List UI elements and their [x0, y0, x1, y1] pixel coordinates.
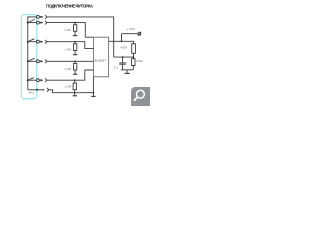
node row4-R3 junction	[74, 60, 76, 62]
connector pin X6	[28, 88, 49, 92]
connector pin X4	[28, 59, 47, 63]
svg-text:ПОДКЛЮЧЕНИЕ ФУТОРКА: ПОДКЛЮЧЕНИЕ ФУТОРКА	[46, 3, 94, 8]
capacitor C1	[119, 63, 126, 64]
wire +3.3V drop	[121, 34, 123, 42]
wire rail B	[114, 56, 134, 58]
wire row5 to IC pin 4	[47, 70, 94, 80]
svg-text:1.5М: 1.5М	[64, 47, 71, 51]
connector pin X3	[28, 40, 47, 44]
connector box XS1 (pale cyan)	[21, 15, 36, 99]
wire row3 to IC pin 2	[47, 42, 94, 49]
resistor R2 1.5M	[74, 42, 77, 55]
node row5-R4 junction	[74, 79, 76, 81]
svg-text:470К: 470К	[120, 46, 127, 50]
+3.3V terminal	[138, 32, 141, 36]
node cap top junction	[122, 56, 124, 58]
svg-text:1.5М: 1.5М	[64, 67, 71, 71]
node row2-R1 junction	[74, 22, 76, 24]
wire capacitor leads	[122, 57, 124, 70]
svg-text:1.5М: 1.5М	[64, 28, 71, 32]
ground at rail end	[91, 93, 95, 97]
ground under R3	[73, 73, 77, 75]
svg-text:0,1: 0,1	[114, 66, 119, 70]
wire +3.3V feed	[122, 33, 138, 35]
ground under R1	[73, 35, 77, 37]
connector pin X2	[28, 21, 47, 25]
connector pin X1	[28, 15, 47, 19]
resistor R3 1.5M	[74, 61, 77, 74]
bus wire	[28, 17, 29, 90]
node +3.3V junction	[121, 40, 123, 42]
ground on rail under R4	[73, 93, 77, 96]
wire row2 to IC pin 1	[47, 23, 94, 38]
switch SA4	[27, 78, 34, 82]
switch SA2	[27, 39, 35, 43]
connector pin X5	[28, 78, 47, 82]
wire row4 to IC pin 3	[47, 60, 94, 62]
svg-text:1.5М: 1.5М	[65, 85, 72, 89]
switch SA3	[27, 58, 35, 62]
resistor R5 470K	[132, 44, 136, 54]
wire R6 stubs	[132, 57, 134, 70]
wire row1 top run to right bus	[47, 17, 114, 57]
node rail end junction	[93, 92, 95, 94]
resistor R6 470K	[132, 59, 135, 66]
svg-text:470К: 470К	[136, 59, 143, 63]
resistor R1 1.5M	[74, 23, 77, 36]
svg-text:ELM327: ELM327	[95, 59, 107, 63]
svg-text:общ: общ	[28, 91, 34, 95]
ground under R2	[73, 54, 77, 56]
node R5-R6 junction	[133, 56, 135, 58]
switch SA1	[27, 20, 35, 24]
wire R5 bottom stub	[133, 53, 135, 57]
wire IC right pin / rail A	[109, 41, 134, 44]
ground under C1/R6 rail	[125, 70, 130, 74]
IC U1	[94, 37, 109, 77]
resistor R4 1.5M	[73, 80, 76, 93]
wire bottom right rail	[121, 69, 133, 71]
node row3-R2 junction	[74, 41, 76, 43]
zoom icon overlay	[131, 87, 150, 106]
node rail-R4 junction	[74, 92, 76, 94]
svg-text:+ 3.3V: + 3.3V	[127, 27, 136, 31]
wire row6 to ground rail	[49, 77, 94, 93]
